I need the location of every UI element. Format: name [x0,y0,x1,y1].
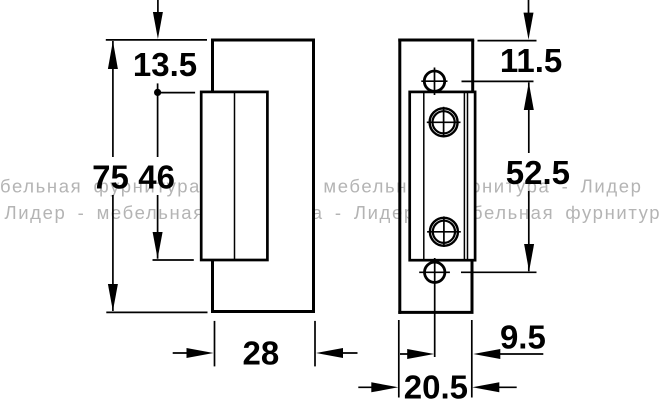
extension line bottom hole centre (y=272.3) [461,271,537,273]
screw hole bottom [425,262,445,282]
crosshair screw hole bottom vertical and extension down [434,258,436,357]
arrow 20.5 left-pointing [472,382,499,392]
datum dot [154,89,161,96]
latch housing right view [410,92,475,260]
plate outline right view right edge upper [471,40,474,92]
extension line latch bottom (y=260) [153,259,194,261]
crosshair screw hole top vertical [434,68,436,96]
extension line 20.5 left [398,320,400,398]
crosshair screw hole bottom horizontal [419,271,450,273]
arrow 52.5 up [524,82,534,110]
arrow 75 down [108,284,118,311]
extension line top hole centre (y=81.2) [462,80,534,82]
latch housing fold line left [423,92,425,260]
svg-text:20.5: 20.5 [404,368,468,400]
svg-text:11.5: 11.5 [500,42,562,79]
crosshair bolt hole upper vertical [443,107,445,137]
dimension 46 line upper segment [157,93,159,157]
svg-text:28: 28 [243,335,280,372]
svg-text:9.5: 9.5 [500,318,546,355]
dimension 28 left tail [173,352,200,354]
dimension 20.5 left tail [358,386,385,388]
dimension 75 line lower segment [112,195,114,311]
dimension 9.5 left tail [400,353,422,355]
arrow 9.5 right-pointing [407,349,434,359]
bolt hole lower inner ring [433,221,455,243]
datum dot stub above [157,83,159,92]
arrow 28 left-pointing [316,348,343,358]
svg-text:46: 46 [138,158,175,195]
arrow 52.5 down [524,244,534,271]
bolt hole upper inner ring [433,111,455,133]
plate outline right view top edge [398,39,474,42]
latch centre edge line left view [234,92,236,260]
dimension 52.5 line lower segment [528,191,530,271]
extension line 28 left [214,321,216,367]
dimension 20.5 right tail [490,386,517,388]
arrow 13.5 down [153,12,163,39]
dimension 75 line upper segment [112,41,114,157]
svg-text:52.5: 52.5 [506,154,570,191]
datum leader line to latch [158,92,196,94]
bolt hole lower outer ring [430,218,458,246]
latch housing fold line right b [467,92,469,260]
plate outline right view right edge lower [471,260,474,312]
arrow 46 down [153,232,163,259]
arrow 9.5 left-pointing [473,349,500,359]
dimension 11.5 stub above [528,0,530,13]
crosshair bolt hole lower vertical [443,216,445,246]
crosshair bolt hole lower horizontal [427,231,461,233]
dimension 28 right tail [330,352,358,354]
latch housing fold line right a [463,92,465,260]
extension line bottom left (y=312) [106,311,207,313]
plate outline right view left edge [398,39,401,314]
plate outline right view bottom edge [398,311,473,314]
bolt hole upper outer ring [430,108,458,136]
arrow 11.5 down [524,13,534,40]
dimension 9.5 right tail [490,353,543,355]
dimension 52.5 line upper segment [528,82,530,153]
arrow 75 up [108,41,118,69]
svg-text:75: 75 [92,158,129,195]
svg-text:13.5: 13.5 [133,46,197,83]
svg-text:Лидер - мебельная фурнитура -: Лидер - мебельная фурнитура - Лидер - ме… [5,202,660,223]
dimension 13.5 stub above [157,0,159,13]
screw hole top [424,71,444,91]
extension line 20.5 right [471,320,473,398]
arrow 28 right-pointing [187,348,214,358]
plate outline left view [213,40,314,312]
latch body left view [201,92,267,260]
crosshair screw hole top horizontal [421,80,447,82]
extension line 11.5 top (y=40.6) [478,40,537,42]
extension line top left (y=40) [106,39,207,41]
dimension 46 line lower segment [157,195,159,259]
extension line 28 right [314,321,316,367]
arrow 20.5 right-pointing [371,382,398,392]
crosshair bolt hole upper horizontal [427,121,461,123]
